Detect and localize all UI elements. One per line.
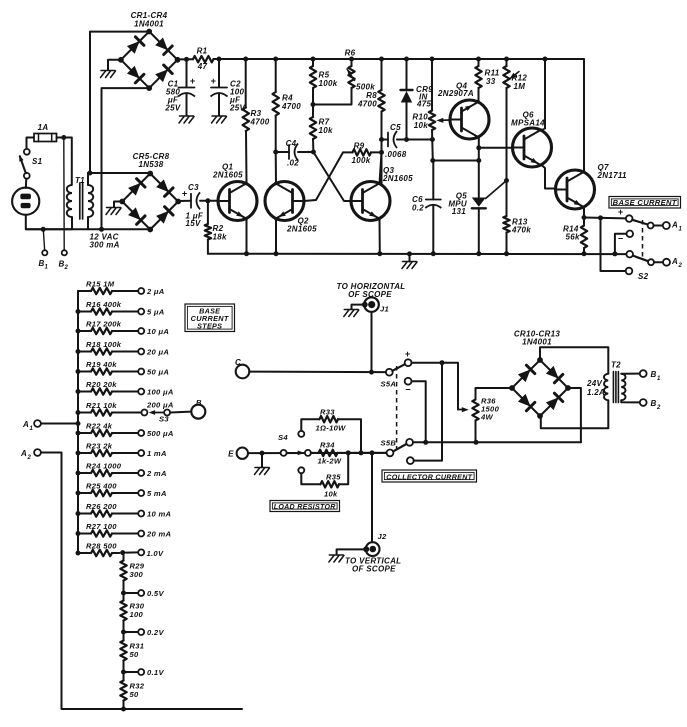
resistor R1 47: [193, 47, 214, 72]
resistor R24 1000: [76, 462, 167, 478]
node S5B minus: [423, 440, 428, 445]
wire bus corner to Q7 collector: [583, 59, 585, 172]
svg-text:R19 40k: R19 40k: [86, 360, 117, 369]
ground: [255, 467, 269, 469]
wire T1 primary bottom: [71, 217, 73, 229]
node C6 corner: [430, 158, 435, 163]
resistor R3 4700: [243, 59, 270, 131]
label box BASE CURRENT: [609, 197, 681, 209]
node R8: [379, 57, 384, 62]
svg-text:2: 2: [64, 265, 69, 271]
wire bridge2 right to C3: [178, 200, 191, 202]
svg-text:S5B: S5B: [381, 439, 397, 448]
svg-text:2N1605: 2N1605: [382, 174, 413, 183]
node AC top: [88, 171, 93, 176]
capacitor C3 1uF: [182, 183, 204, 228]
resistor R32 50: [120, 672, 145, 701]
wire to B1 terminal: [43, 231, 44, 250]
ground: [329, 554, 343, 556]
svg-text:1: 1: [45, 265, 49, 271]
svg-text:100: 100: [130, 610, 144, 619]
node C1: [184, 57, 189, 62]
wire S5B collector rail: [413, 441, 581, 443]
svg-text:R25 400: R25 400: [86, 482, 117, 491]
node Q5 gate: [504, 178, 509, 183]
svg-text:1A: 1A: [38, 123, 49, 132]
node cross left: [311, 150, 316, 155]
svg-text:J1: J1: [380, 305, 389, 314]
resistor R30 100: [120, 593, 145, 621]
wire S5B lower contact cross link: [414, 363, 442, 461]
resistor R35 10k: [298, 453, 348, 499]
wire Q2 emitter: [275, 219, 277, 254]
PUT Q5 MPU131: [448, 181, 506, 254]
svg-text:T2: T2: [611, 361, 621, 370]
rectifier bridge CR5-CR8: [119, 152, 181, 232]
resistor R21 10k: [76, 401, 148, 416]
svg-text:470k: 470k: [511, 226, 531, 235]
wire AC line bottom: [102, 88, 150, 229]
svg-text:+: +: [211, 76, 217, 86]
ground: [212, 115, 226, 117]
svg-text:1k-2W: 1k-2W: [318, 457, 342, 466]
svg-text:R33: R33: [320, 408, 335, 417]
node CR9 top: [404, 57, 409, 62]
wire Q7 emitter: [583, 208, 585, 218]
svg-text:1: 1: [30, 426, 34, 432]
label box COLLECTOR CURRENT: [382, 470, 477, 482]
wire AC line top: [90, 32, 149, 173]
resistor R7 10k: [310, 117, 333, 152]
svg-text:LOAD RESISTOR: LOAD RESISTOR: [274, 502, 336, 511]
svg-text:R20 20k: R20 20k: [86, 380, 117, 389]
svg-text:4700: 4700: [281, 102, 301, 111]
wire S5A plus rail: [412, 363, 459, 410]
wire Q4 base arrow to R10: [436, 118, 450, 123]
wire A2 down to bottom: [41, 453, 124, 710]
resistor R13 470k: [503, 216, 531, 254]
label box BASE CURRENT STEPS: [185, 304, 235, 332]
svg-text:33: 33: [486, 77, 496, 86]
wire bridge3 bottom to T2: [541, 400, 609, 428]
transistor Q6 MPSA14: [511, 111, 552, 168]
ground: [107, 207, 121, 209]
svg-text:100 μA: 100 μA: [147, 387, 174, 396]
wire fuse-right, B2 branch: [57, 137, 72, 139]
AC plug P1: [12, 188, 39, 215]
resistor R11 33: [475, 59, 499, 102]
switch S5B: [381, 439, 414, 465]
wire +V bus: [214, 58, 585, 60]
svg-text:1 mA: 1 mA: [147, 449, 167, 458]
svg-text:0.2V: 0.2V: [147, 628, 164, 637]
svg-text:+: +: [618, 207, 624, 217]
svg-text:A: A: [671, 221, 678, 230]
node R10 bottom: [430, 137, 435, 142]
node R13 bottom: [504, 251, 509, 256]
node R5: [311, 57, 316, 62]
switch S2 bottom contact: [626, 268, 633, 275]
svg-text:R28 500: R28 500: [86, 542, 117, 551]
wire J1 down to C row: [371, 312, 373, 372]
wire to Q6 base: [479, 147, 513, 149]
svg-text:300 mA: 300 mA: [90, 241, 120, 250]
terminal B2 (T2): [640, 399, 647, 406]
switch S4: [278, 433, 311, 456]
wire Q2 collector: [275, 152, 277, 184]
svg-text:15V: 15V: [186, 219, 201, 228]
svg-text:R6: R6: [345, 49, 356, 58]
switch S2 lower pole: [626, 251, 663, 265]
switch S5A: [381, 349, 412, 395]
svg-text:S2: S2: [638, 272, 649, 281]
wire 12VAC rail: [26, 228, 150, 230]
resistor R5 100k: [310, 59, 338, 88]
wire J2 to ground: [337, 549, 366, 554]
wire T1 secondary top: [87, 173, 89, 185]
svg-text:.02: .02: [287, 159, 299, 168]
svg-text:4W: 4W: [480, 413, 494, 422]
node Q1 base: [205, 198, 210, 203]
node R4: [273, 57, 278, 62]
node S2 branch: [598, 215, 603, 220]
node Q6 base tap: [476, 145, 481, 150]
switch S2 minus contact: [615, 231, 633, 252]
tap 0.2V: [121, 621, 164, 637]
node R14 bottom: [582, 251, 587, 256]
tap 0.5V: [121, 581, 164, 598]
node R3: [243, 57, 248, 62]
node R6: [349, 57, 354, 62]
resistor R10 10k variable: [412, 59, 435, 161]
wire Q2 base cross-couple to R9: [304, 152, 343, 201]
svg-text:1N538: 1N538: [138, 160, 163, 169]
svg-text:S1: S1: [32, 157, 43, 166]
svg-text:C4: C4: [286, 139, 297, 148]
wire S5A minus to S5B: [412, 381, 426, 442]
svg-text:4700: 4700: [250, 118, 270, 127]
svg-text:0.5V: 0.5V: [147, 589, 164, 598]
wire Q4 collector down: [478, 138, 480, 198]
wire bridge2 left to ground: [114, 202, 122, 208]
resistor R19 40k: [76, 360, 170, 376]
ground: [101, 70, 115, 72]
resistor R33 1ohm-10W: [298, 408, 361, 453]
svg-text:R26 200: R26 200: [86, 502, 117, 511]
resistor R6 500k variable: [313, 49, 375, 105]
svg-text:OF SCOPE: OF SCOPE: [352, 565, 396, 574]
svg-text:475: 475: [416, 100, 431, 109]
svg-text:C: C: [235, 358, 241, 367]
svg-text:47: 47: [197, 62, 208, 71]
capacitor C1 580uF: [164, 59, 195, 115]
wire R14 to S2 plus contact: [584, 217, 626, 220]
svg-text:100k: 100k: [352, 156, 371, 165]
resistor R8 4700: [357, 59, 385, 184]
resistor R4 4700: [273, 59, 302, 152]
svg-text:2N1605: 2N1605: [286, 225, 317, 234]
node 12VAC: [99, 227, 104, 232]
wire T2 secondary to B1: [621, 373, 640, 375]
ground: [403, 261, 417, 263]
terminal C: [236, 365, 250, 379]
svg-text:R34: R34: [320, 441, 335, 450]
svg-text:B: B: [196, 398, 202, 407]
resistor R16 400k: [76, 300, 165, 316]
resistor R36 1500 4W: [472, 388, 512, 442]
node Q5 cathode: [476, 251, 481, 256]
svg-text:S4: S4: [278, 433, 288, 442]
capacitor C4 .02: [276, 139, 300, 168]
svg-text:A: A: [22, 420, 29, 429]
svg-text:+: +: [405, 349, 411, 359]
svg-text:0.1V: 0.1V: [147, 668, 164, 677]
svg-text:200 μA: 200 μA: [146, 401, 174, 410]
wire bridge1 right to R1: [178, 58, 194, 60]
svg-text:BASE CURRENT: BASE CURRENT: [613, 198, 677, 207]
wire Q6 collector to bus: [542, 129, 546, 131]
wire bottom return: [124, 708, 243, 710]
svg-text:R23 2k: R23 2k: [86, 442, 113, 451]
svg-text:R9: R9: [354, 142, 365, 151]
transistor Q3 2N1605: [351, 166, 413, 221]
svg-text:20 mA: 20 mA: [146, 529, 171, 538]
dashed gang line S2: [642, 220, 644, 258]
wire bridge1 left to ground: [108, 60, 121, 70]
svg-text:10k: 10k: [319, 126, 333, 135]
resistor R20 20k: [76, 380, 174, 396]
resistor R18 100k: [76, 340, 170, 356]
node divider bottom: [121, 707, 126, 712]
terminal B: [191, 405, 205, 419]
wire J1 to ground: [352, 305, 365, 309]
svg-text:1.2A: 1.2A: [587, 388, 605, 397]
switch S3: [146, 401, 191, 424]
svg-text:S5A: S5A: [381, 380, 397, 389]
wire to CR5-CR8 top: [88, 172, 150, 174]
node J2 tap: [370, 450, 375, 455]
node C4 left: [273, 150, 278, 155]
transformer T2: [586, 361, 626, 403]
node R10 top: [430, 57, 435, 62]
svg-text:1Ω-10W: 1Ω-10W: [316, 424, 347, 433]
tap 0.1V: [121, 661, 164, 677]
svg-text:COLLECTOR CURRENT: COLLECTOR CURRENT: [386, 473, 472, 482]
node B1 tap: [41, 227, 46, 232]
resistor R22 4k: [76, 422, 174, 438]
svg-text:R18 100k: R18 100k: [86, 340, 122, 349]
svg-text:10 mA: 10 mA: [147, 509, 171, 518]
svg-text:56k: 56k: [566, 233, 580, 242]
resistor R2 18k: [205, 201, 227, 254]
resistor R9 100k: [343, 142, 382, 166]
wire to B2 terminal: [63, 139, 65, 250]
svg-text:R22 4k: R22 4k: [86, 422, 113, 431]
node Q1 emitter: [244, 251, 249, 256]
svg-text:−: −: [405, 385, 411, 395]
svg-text:E: E: [228, 450, 234, 459]
wire T2 secondary to B2: [621, 400, 640, 402]
wire cross-couple to Q3 base: [313, 152, 351, 201]
terminal B2: [62, 250, 67, 255]
svg-text:2N2907A: 2N2907A: [437, 89, 474, 98]
svg-text:R16 400k: R16 400k: [86, 300, 122, 309]
wire S1 to plug: [25, 179, 28, 188]
wire C5 to R10 column: [397, 139, 433, 141]
svg-text:+: +: [182, 189, 188, 199]
node E ground tap: [260, 451, 265, 456]
svg-text:300: 300: [130, 570, 144, 579]
wire bridge3 right to collector rail: [568, 388, 581, 442]
resistor R28 500: [76, 542, 164, 558]
svg-text:2N1711: 2N1711: [597, 171, 627, 180]
terminal B1: [42, 250, 47, 255]
wire fuse to T1 primary: [71, 138, 73, 186]
svg-text:MPSA14: MPSA14: [511, 119, 545, 128]
svg-text:+: +: [190, 76, 196, 86]
svg-text:18k: 18k: [213, 233, 227, 242]
switch S1: [19, 149, 42, 179]
svg-text:5 μA: 5 μA: [147, 307, 165, 316]
wire Q1 emitter: [246, 219, 248, 254]
resistor R14 56k: [563, 218, 587, 254]
svg-text:−: −: [618, 234, 624, 244]
svg-text:B: B: [651, 399, 657, 408]
svg-text:2: 2: [27, 455, 32, 461]
node CR9 bottom: [404, 137, 409, 142]
transistor Q4 2N2907A: [437, 82, 489, 140]
svg-text:C3: C3: [188, 183, 199, 192]
node S2 minus: [612, 251, 617, 256]
svg-text:C5: C5: [390, 123, 401, 132]
wire to J2: [371, 453, 373, 542]
node cross link top: [440, 360, 445, 365]
rectifier bridge CR1-CR4: [118, 11, 180, 91]
resistor R12 1M variable: [503, 59, 527, 216]
switch S2 upper pole: [618, 207, 663, 229]
wire to ground: [261, 453, 263, 467]
wire A1 to rail: [41, 423, 78, 425]
svg-text:2: 2: [656, 405, 661, 411]
transformer T1: [67, 176, 93, 219]
svg-text:50: 50: [130, 650, 140, 659]
node Q3 emitter: [377, 251, 382, 256]
terminal B1 (T2): [640, 370, 647, 377]
wire C6 link: [433, 160, 479, 162]
wire C4 to R7 node: [298, 151, 313, 153]
wire Q3 emitter: [379, 219, 381, 254]
svg-text:.0068: .0068: [385, 150, 407, 159]
svg-text:1: 1: [679, 227, 683, 233]
capacitor C5 .0068: [382, 123, 407, 159]
ground: [180, 115, 194, 117]
capacitor C6 0.2: [412, 161, 441, 254]
node R6 join: [311, 102, 316, 107]
wire ladder rail: [77, 291, 79, 553]
wire T1 secondary bottom: [87, 217, 89, 229]
svg-text:100k: 100k: [319, 79, 338, 88]
terminal A2 (ladder): [34, 449, 41, 456]
svg-text:R15 1M: R15 1M: [86, 280, 115, 289]
wire S2 common branch: [601, 218, 626, 271]
wire Q3 collector: [380, 152, 382, 183]
node gnd: [407, 251, 412, 256]
svg-text:500 μA: 500 μA: [147, 429, 174, 438]
terminal E: [237, 448, 248, 459]
resistor R17 200k: [76, 320, 170, 336]
fuse F1 1A: [34, 123, 57, 142]
svg-text:B: B: [651, 370, 657, 379]
rectifier bridge CR10-CR13: [509, 330, 571, 419]
node Q7 emitter: [582, 215, 587, 220]
svg-text:0.2: 0.2: [412, 204, 424, 213]
wire Q1 collector to R3: [245, 131, 248, 184]
node R12: [504, 57, 509, 62]
capacitor C2 100uF: [211, 59, 246, 116]
node R36 bottom: [474, 440, 479, 445]
resistor R23 2k: [76, 442, 167, 458]
node Q2 emitter: [274, 251, 279, 256]
svg-text:131: 131: [452, 207, 466, 216]
svg-text:10k: 10k: [324, 490, 338, 499]
node J1 tap: [369, 370, 374, 375]
svg-text:R1: R1: [197, 47, 208, 56]
terminal A1 (ladder): [34, 420, 41, 427]
jack J1: [362, 297, 389, 313]
wire C3 to Q1 base: [200, 200, 218, 202]
wire C row: [249, 371, 386, 374]
node R9 right: [379, 150, 384, 155]
terminal A1: [663, 222, 670, 229]
svg-text:2N1605: 2N1605: [212, 171, 243, 180]
node R33 tap: [359, 450, 364, 455]
svg-text:A: A: [20, 449, 27, 458]
svg-text:2: 2: [678, 263, 683, 269]
svg-text:25V: 25V: [164, 104, 180, 113]
svg-text:50 μA: 50 μA: [147, 367, 169, 376]
wire ground bus: [208, 253, 626, 255]
resistor R15 1M: [78, 280, 165, 296]
svg-text:OF SCOPE: OF SCOPE: [348, 290, 392, 299]
svg-text:24V: 24V: [586, 379, 602, 388]
label box LOAD RESISTOR: [270, 501, 340, 512]
svg-text:R27 100: R27 100: [86, 522, 117, 531]
node C6 bottom: [431, 251, 436, 256]
jack J2: [363, 532, 387, 556]
svg-text:1N4001: 1N4001: [134, 20, 164, 29]
transistor Q1 2N1605: [212, 163, 257, 221]
svg-text:10 μA: 10 μA: [147, 327, 169, 336]
svg-text:1.0V: 1.0V: [147, 549, 164, 558]
node R35 tap: [346, 450, 351, 455]
wire Q6 emitter to Q7 base: [542, 165, 556, 189]
node C6 tap: [476, 158, 481, 163]
node C2: [217, 57, 222, 62]
svg-text:1: 1: [657, 376, 661, 382]
svg-text:2 μA: 2 μA: [146, 287, 165, 296]
svg-text:STEPS: STEPS: [197, 322, 222, 331]
svg-text:1N4001: 1N4001: [522, 338, 552, 347]
resistor R27 100: [76, 522, 172, 538]
svg-text:2 mA: 2 mA: [146, 469, 167, 478]
resistor R25 400: [76, 482, 167, 498]
svg-text:A: A: [671, 257, 678, 266]
svg-text:50: 50: [130, 690, 140, 699]
wire fuse-left to S1: [27, 138, 35, 149]
node Q6 collector: [543, 57, 548, 62]
node C5 left: [379, 137, 384, 142]
resistor R31 50: [120, 632, 144, 661]
